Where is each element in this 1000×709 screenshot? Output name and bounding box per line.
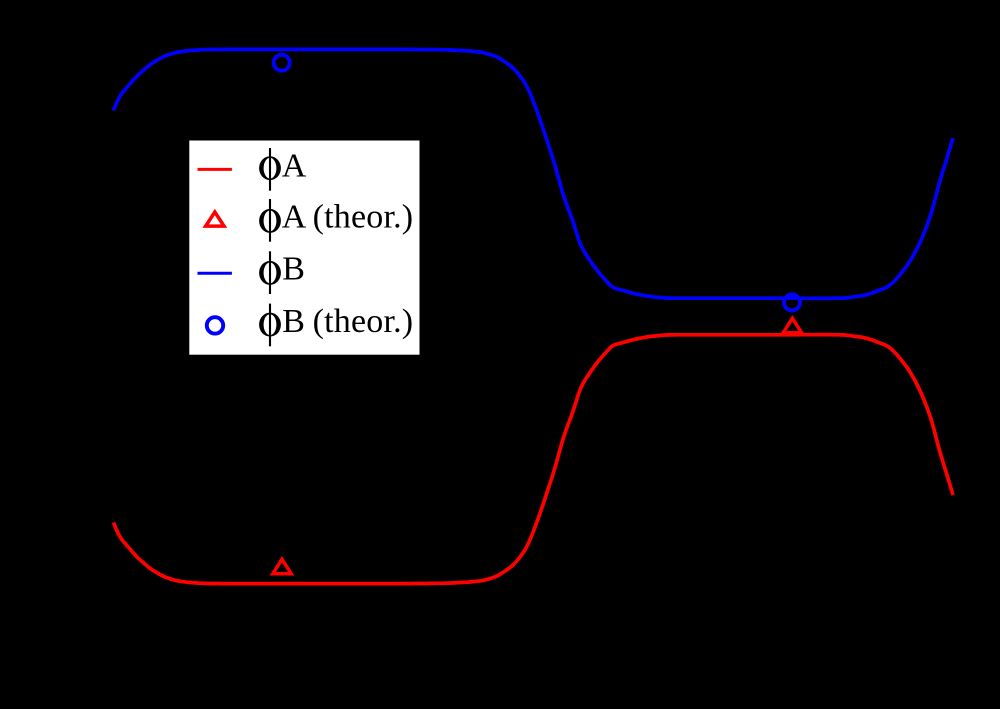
- svg-text:A: A: [282, 198, 307, 235]
- svg-text:(theor.): (theor.): [313, 303, 414, 340]
- svg-text:B: B: [282, 303, 305, 340]
- svg-text:B: B: [282, 251, 305, 288]
- svg-text:(theor.): (theor.): [313, 198, 414, 235]
- svg-text:A: A: [282, 147, 307, 184]
